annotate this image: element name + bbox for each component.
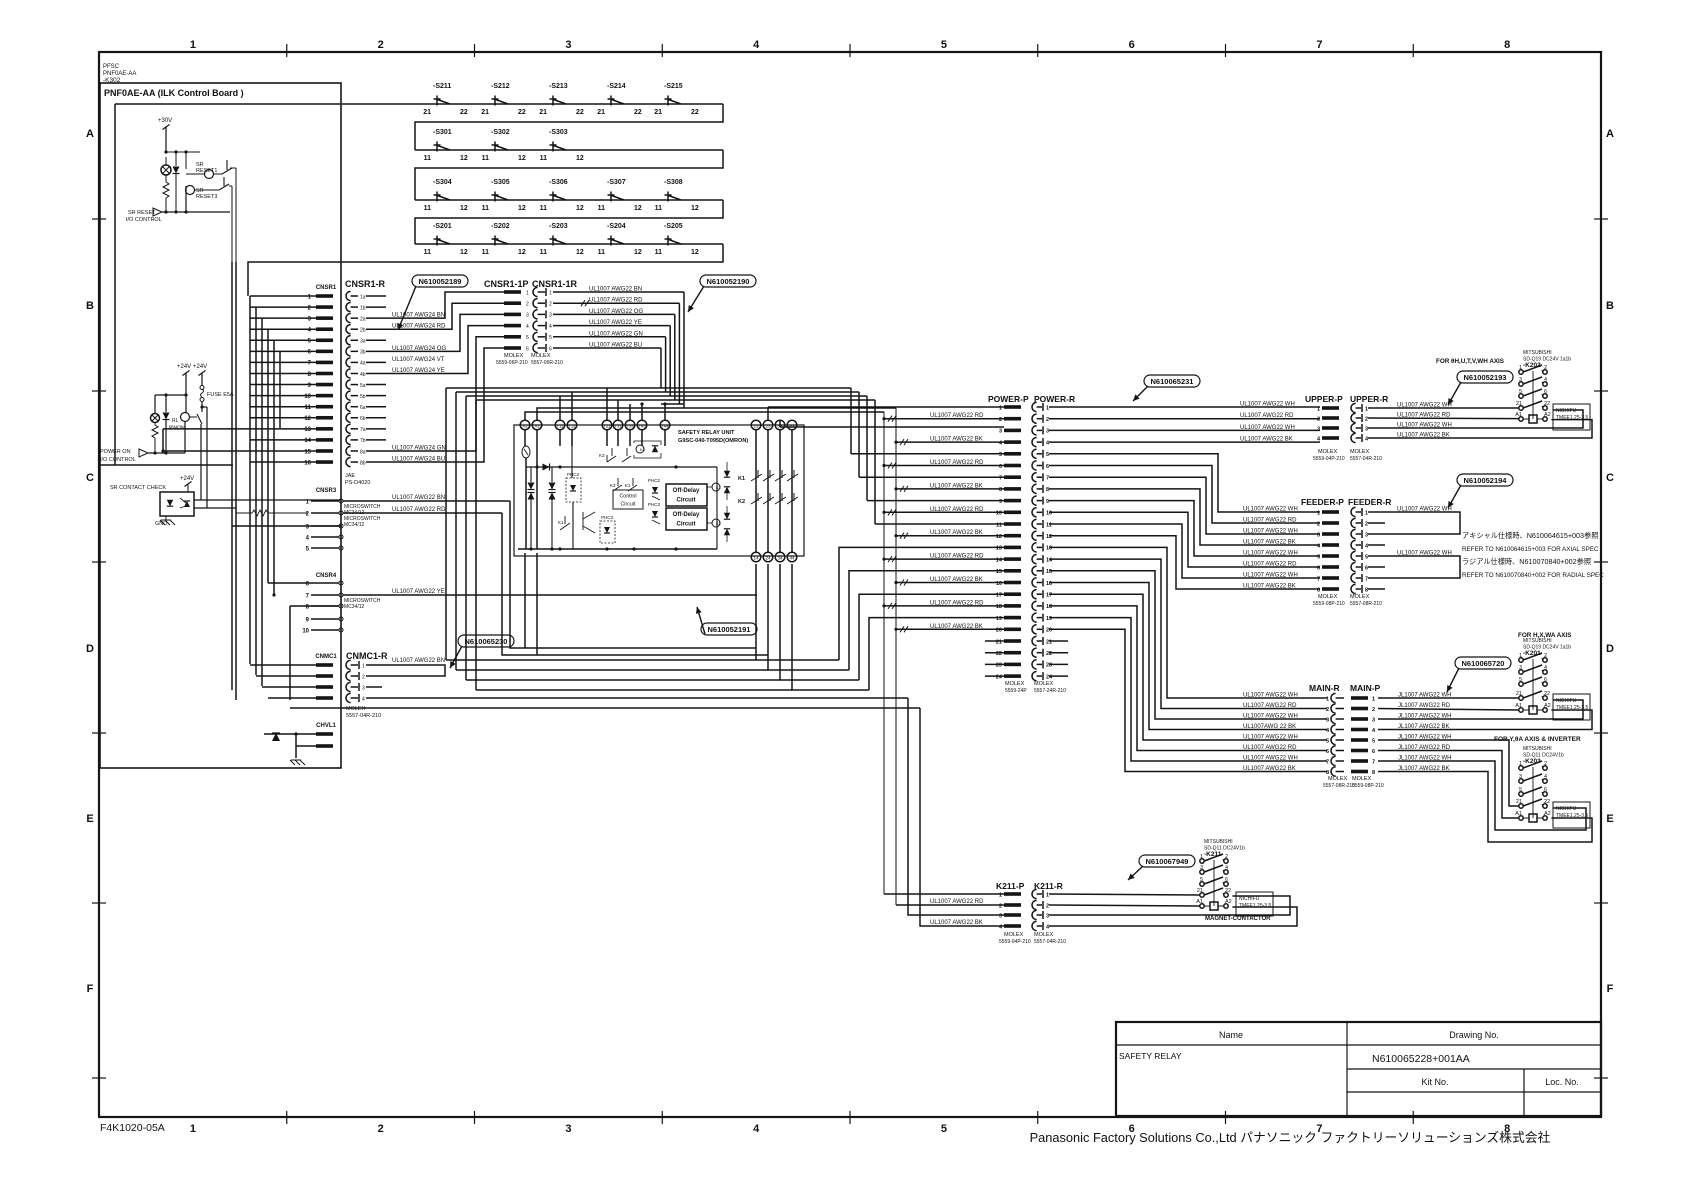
- svg-text:JAE: JAE: [345, 473, 355, 479]
- svg-text:5559-24P: 5559-24P: [1005, 688, 1027, 694]
- unit pin T44: [660, 420, 670, 430]
- bus wire: [895, 408, 897, 905]
- svg-text:REFER TO N610070840+002 FOR RA: REFER TO N610070840+002 FOR RADIAL SPEC: [1462, 572, 1604, 579]
- svg-text:5: 5: [549, 335, 552, 341]
- zener pair: [528, 483, 535, 490]
- svg-text:MOLEX: MOLEX: [1350, 594, 1370, 600]
- svg-text:UPPER-R: UPPER-R: [1350, 394, 1388, 404]
- POWER-R pin 20: [1032, 625, 1037, 634]
- svg-text:5557-06R-210: 5557-06R-210: [531, 360, 563, 366]
- chain end wire: [248, 244, 723, 296]
- svg-text:C: C: [86, 472, 94, 484]
- svg-text:-S201: -S201: [433, 223, 452, 230]
- svg-text:-S202: -S202: [491, 223, 510, 230]
- svg-text:FOR θH,U,T,V,WH AXIS: FOR θH,U,T,V,WH AXIS: [1436, 358, 1504, 365]
- svg-text:CNSR3: CNSR3: [316, 488, 337, 494]
- svg-text:13: 13: [753, 423, 759, 428]
- svg-text:POWER-P: POWER-P: [988, 394, 1029, 404]
- svg-text:POWER-R: POWER-R: [1034, 394, 1075, 404]
- triangle in: [153, 208, 162, 216]
- svg-text:TMEE1.25-3.5: TMEE1.25-3.5: [1239, 903, 1271, 909]
- svg-text:2: 2: [1046, 903, 1049, 909]
- svg-text:N610065720: N610065720: [1462, 659, 1505, 668]
- ground: [290, 760, 305, 765]
- wire bottom: [148, 452, 185, 454]
- svg-text:9: 9: [1046, 499, 1049, 505]
- svg-text:2: 2: [362, 674, 365, 680]
- unit lead: [641, 430, 643, 446]
- svg-text:2: 2: [1326, 707, 1329, 713]
- PHC3 box left: [600, 521, 615, 543]
- svg-text:12: 12: [576, 249, 584, 256]
- svg-text:-K202: -K202: [1523, 362, 1541, 369]
- wire vertical: [678, 303, 680, 404]
- unit pin T22: [602, 420, 612, 430]
- contact blade: [787, 470, 798, 481]
- wire bundle left verticals: [445, 388, 447, 660]
- svg-text:6: 6: [1372, 749, 1375, 755]
- unit pin T33: [625, 420, 635, 430]
- zone tick right: [1594, 732, 1608, 734]
- svg-text:UL1007 AWG22 GN: UL1007 AWG22 GN: [589, 331, 643, 337]
- svg-text:GND: GND: [155, 521, 167, 527]
- CNSR1-R pin 6a: [346, 402, 351, 411]
- CNMC1-R pin 2: [346, 671, 351, 680]
- svg-text:6: 6: [1129, 39, 1135, 51]
- CNSR1-R pin 6b: [346, 413, 351, 422]
- svg-text:1: 1: [1519, 761, 1522, 767]
- svg-text:UL1007 AWG22 BK: UL1007 AWG22 BK: [1243, 766, 1296, 772]
- svg-text:SAFETY RELAY UNIT: SAFETY RELAY UNIT: [678, 430, 735, 436]
- wire down: [200, 424, 202, 500]
- zone tick top: [474, 44, 476, 57]
- svg-text:UL1007 AWG22 BK: UL1007 AWG22 BK: [930, 530, 983, 536]
- svg-text:2: 2: [526, 302, 529, 308]
- control circuit box: [613, 490, 643, 509]
- svg-text:MOLEX: MOLEX: [504, 353, 524, 359]
- wire UL1007 AWG22 RD: [1368, 417, 1519, 420]
- stub: [1368, 522, 1385, 524]
- svg-text:2: 2: [1046, 417, 1049, 423]
- contact blade: [751, 493, 762, 504]
- wire: [230, 167, 236, 169]
- svg-text:11: 11: [1046, 522, 1052, 528]
- svg-text:21: 21: [539, 109, 547, 116]
- svg-text:10: 10: [302, 628, 309, 634]
- FEEDER-P pin 1: [1322, 510, 1339, 514]
- svg-text:UL1007 AWG22 WH: UL1007 AWG22 WH: [1240, 425, 1295, 431]
- contact K2/K1: [613, 478, 637, 491]
- FEEDER-P pin 5: [1322, 554, 1339, 558]
- MAIN-P pin 6: [1351, 749, 1368, 753]
- svg-text:RESET3: RESET3: [196, 194, 217, 200]
- svg-text:MOLEX: MOLEX: [1328, 776, 1348, 782]
- wire UL1007 AWG22 BU: [553, 347, 661, 349]
- wire: [268, 582, 311, 584]
- svg-text:UL1007 AWG22 BU: UL1007 AWG22 BU: [589, 343, 642, 349]
- wire A1 lead: [537, 408, 896, 420]
- K211-R pin 2: [1032, 900, 1037, 909]
- wire stub: [366, 372, 386, 374]
- svg-text:6: 6: [1365, 565, 1368, 571]
- CNSR1-R pin 4b: [346, 369, 351, 378]
- MAIN-P pin 3: [1351, 717, 1368, 721]
- svg-text:RL: RL: [172, 418, 179, 424]
- switch chain row 1 wire: [342, 103, 723, 105]
- wire to CNSR1-1P: [386, 326, 504, 374]
- svg-text:16: 16: [304, 460, 311, 466]
- zone tick top: [661, 44, 663, 57]
- svg-text:Control: Control: [619, 494, 636, 500]
- svg-text:-S213: -S213: [549, 83, 568, 90]
- svg-text:F4K1020-05A: F4K1020-05A: [100, 1122, 165, 1134]
- switch -S307: [608, 192, 625, 202]
- wire to CNSR1-1P: [386, 303, 504, 329]
- pushbutton SR RESET1: [205, 170, 214, 179]
- svg-text:5557-08R-210: 5557-08R-210: [1323, 783, 1355, 789]
- POWER-R pin 9: [1032, 496, 1037, 505]
- unit lead: [524, 430, 526, 446]
- svg-text:11: 11: [598, 249, 606, 256]
- svg-text:10: 10: [1046, 511, 1052, 517]
- svg-text:23: 23: [1046, 663, 1052, 669]
- svg-text:22: 22: [460, 109, 468, 116]
- svg-text:N610065230: N610065230: [465, 637, 508, 646]
- wire to MAIN-R: [1049, 559, 1327, 708]
- svg-text:1: 1: [1372, 696, 1375, 702]
- title right row line2: [1347, 1091, 1601, 1093]
- wire: [155, 394, 186, 396]
- svg-text:-S302: -S302: [491, 129, 510, 136]
- svg-text:17: 17: [996, 593, 1002, 599]
- contact K1: [560, 516, 570, 530]
- wire 14 lead: [756, 564, 839, 660]
- svg-text:11: 11: [482, 155, 490, 162]
- svg-text:13: 13: [1046, 546, 1052, 552]
- svg-text:7: 7: [999, 476, 1002, 482]
- wire UL1007 AWG22 WH: [1049, 429, 1320, 431]
- svg-text:21: 21: [996, 639, 1002, 645]
- CNSR1-1P pin 4: [504, 324, 521, 328]
- svg-text:K2: K2: [610, 483, 616, 488]
- wire stub: [366, 406, 386, 408]
- svg-text:CNSR4: CNSR4: [316, 573, 337, 579]
- svg-text:22: 22: [1544, 799, 1550, 805]
- off-delay circuit 2: [666, 508, 707, 530]
- svg-text:20: 20: [1046, 628, 1052, 634]
- CNSR1-R pin 2b: [346, 325, 351, 334]
- zone tick bottom: [1412, 1111, 1414, 1124]
- switch -S215: [665, 96, 682, 106]
- svg-text:3: 3: [1326, 717, 1329, 723]
- zone tick bottom: [286, 1111, 288, 1124]
- svg-text:UL1007 AWG22 BK: UL1007 AWG22 BK: [930, 437, 983, 443]
- svg-text:5557-08R-210: 5557-08R-210: [1350, 601, 1382, 607]
- wire 34 lead: [780, 564, 859, 680]
- diode: [272, 733, 280, 741]
- svg-text:UL1007 AWG22 WH: UL1007 AWG22 WH: [1243, 693, 1298, 699]
- CNSR1-R pin 8a: [346, 446, 351, 455]
- svg-text:5: 5: [1365, 554, 1368, 560]
- svg-text:4: 4: [362, 696, 365, 702]
- svg-text:1: 1: [1046, 892, 1049, 898]
- svg-text:5: 5: [1046, 452, 1049, 458]
- CNSR1-1P pin 6: [504, 346, 521, 350]
- wire 24 lead: [768, 564, 849, 670]
- title right row line: [1347, 1068, 1601, 1070]
- wire vertical: [665, 337, 667, 392]
- zone tick left: [92, 390, 106, 392]
- svg-text:F: F: [1607, 983, 1614, 995]
- zener pair: [549, 483, 556, 490]
- chain return wire: [415, 200, 723, 244]
- svg-text:FEEDER-R: FEEDER-R: [1348, 497, 1391, 507]
- svg-text:NICHIFU: NICHIFU: [1239, 896, 1260, 902]
- wire UL1007 AWG22 RD: [884, 558, 1004, 560]
- svg-text:K3: K3: [599, 453, 605, 458]
- svg-text:UL1007 AWG22 BN: UL1007 AWG22 BN: [589, 287, 642, 293]
- wire to MAIN-R: [1049, 618, 1327, 761]
- svg-text:12: 12: [634, 205, 642, 212]
- switch -S202: [492, 236, 509, 246]
- switch -S304: [434, 192, 451, 202]
- wire pin13 left: [163, 428, 250, 430]
- wire K201 21: [1378, 697, 1519, 699]
- svg-text:UL1007 AWG24 VT: UL1007 AWG24 VT: [392, 357, 445, 363]
- LED PWON: [151, 414, 160, 423]
- svg-text:A2: A2: [1544, 412, 1551, 418]
- svg-text:K211-P: K211-P: [996, 881, 1025, 891]
- svg-text:UL1007 AWG22 RD: UL1007 AWG22 RD: [1243, 518, 1297, 524]
- svg-text:5559-06P-210: 5559-06P-210: [496, 360, 528, 366]
- diode: [163, 413, 170, 420]
- svg-text:1: 1: [362, 663, 365, 669]
- svg-text:3: 3: [565, 1123, 571, 1135]
- balloon N610052189: [412, 275, 468, 287]
- unit lead: [629, 430, 631, 446]
- svg-text:UL1007 AWG22 OG: UL1007 AWG22 OG: [589, 309, 643, 315]
- svg-text:UL1007 AWG22 RD: UL1007 AWG22 RD: [930, 600, 984, 606]
- UPPER-P pin 4: [1322, 436, 1339, 440]
- contact blade: [190, 414, 203, 424]
- unit internal bus: [526, 466, 717, 468]
- wire K211 21: [1049, 894, 1200, 895]
- svg-text:4: 4: [549, 324, 552, 330]
- svg-text:12: 12: [460, 205, 468, 212]
- svg-text:11: 11: [996, 522, 1002, 528]
- unit pin 14: [751, 552, 761, 562]
- svg-text:UL1007 AWG22 WH: UL1007 AWG22 WH: [1243, 756, 1298, 762]
- svg-text:PS-D4020: PS-D4020: [345, 480, 370, 486]
- svg-text:UL1007 AWG22 BK: UL1007 AWG22 BK: [1243, 540, 1296, 546]
- wire T22 lead: [606, 388, 608, 420]
- switch -S201: [434, 236, 451, 246]
- svg-text:16: 16: [996, 581, 1002, 587]
- CNSR1-1R pin 2: [533, 299, 538, 308]
- svg-text:D: D: [86, 643, 94, 655]
- svg-text:1: 1: [1046, 405, 1049, 411]
- svg-text:9: 9: [999, 499, 1002, 505]
- svg-text:-S212: -S212: [491, 83, 510, 90]
- svg-text:21: 21: [1197, 888, 1203, 894]
- svg-text:-S303: -S303: [549, 129, 568, 136]
- svg-text:MC34/12: MC34/12: [344, 522, 365, 528]
- svg-text:FEEDER-P: FEEDER-P: [1301, 497, 1344, 507]
- stub wires: [985, 640, 1004, 642]
- svg-text:7b: 7b: [360, 438, 366, 444]
- contact blade: [751, 470, 762, 481]
- CHVL1 pin 2: [316, 744, 333, 748]
- svg-text:A2: A2: [1225, 899, 1232, 905]
- switch chain row 3 wire: [415, 199, 723, 201]
- svg-text:N610065231: N610065231: [1151, 377, 1194, 386]
- NICHIFU terminal box: [1236, 892, 1273, 916]
- svg-text:Kit No.: Kit No.: [1421, 1077, 1448, 1087]
- svg-text:F: F: [87, 983, 94, 995]
- svg-text:2b: 2b: [360, 328, 366, 334]
- svg-text:T22: T22: [603, 423, 611, 428]
- safety relay unit U1 box: [514, 425, 804, 556]
- svg-text:1: 1: [526, 290, 529, 296]
- bus wire: [883, 412, 885, 894]
- svg-text:A1: A1: [1515, 811, 1522, 817]
- CNSR1-R pin 3b: [346, 347, 351, 356]
- wire K203 A1: [1378, 751, 1519, 819]
- switch -S214: [608, 96, 625, 106]
- svg-text:-S307: -S307: [607, 179, 626, 186]
- stub wires: [985, 675, 1004, 677]
- svg-text:Panasonic Factory Solutions Co: Panasonic Factory Solutions Co.,Ltd パナソニ…: [1030, 1130, 1551, 1145]
- svg-text:UL1007 AWG22 RD: UL1007 AWG22 RD: [1397, 413, 1451, 419]
- svg-text:+24V: +24V: [180, 476, 194, 482]
- wire to MAIN-R: [1049, 594, 1327, 740]
- wire UL1007 AWG22 RD: [884, 465, 1004, 467]
- svg-text:21: 21: [597, 109, 605, 116]
- svg-text:24: 24: [765, 555, 771, 560]
- zone tick top: [849, 44, 851, 57]
- svg-text:4b: 4b: [360, 372, 366, 378]
- wire to FEEDER-P: [1049, 524, 1320, 578]
- wire K211 A1: [1049, 905, 1200, 906]
- wire: [229, 185, 232, 187]
- wire loop rows5-7: [1368, 556, 1460, 578]
- UPPER-P pin 2: [1322, 416, 1339, 420]
- CNSR1-1P pin 1: [504, 290, 521, 294]
- svg-text:3: 3: [999, 429, 1002, 435]
- svg-text:3b: 3b: [360, 350, 366, 356]
- svg-text:1: 1: [549, 290, 552, 296]
- wire CNSR3 drop2: [502, 513, 628, 655]
- wire stub: [366, 395, 386, 397]
- inner box line top: [115, 103, 341, 105]
- wires to POWER odd rows: [851, 453, 1004, 455]
- svg-text:8: 8: [1046, 487, 1049, 493]
- svg-text:12: 12: [460, 249, 468, 256]
- svg-text:8: 8: [1372, 770, 1375, 776]
- svg-text:UL1007 AWG22 RD: UL1007 AWG22 RD: [1243, 745, 1297, 751]
- zone tick bottom: [1037, 1111, 1039, 1124]
- triangle in: [139, 449, 148, 457]
- svg-text:2: 2: [1372, 707, 1375, 713]
- svg-text:5559-04P-210: 5559-04P-210: [999, 939, 1031, 945]
- diode pair: [724, 471, 730, 477]
- svg-text:5557-04R-210: 5557-04R-210: [1034, 939, 1066, 945]
- unit pin 13: [751, 420, 761, 430]
- svg-text:3: 3: [1365, 532, 1368, 538]
- svg-text:11: 11: [424, 155, 432, 162]
- svg-text:MOLEX: MOLEX: [1318, 449, 1338, 455]
- UPPER-P pin 3: [1322, 426, 1339, 430]
- svg-text:MITSUBISHI: MITSUBISHI: [1523, 746, 1552, 752]
- K211-R pin 4: [1032, 921, 1037, 930]
- svg-text:8: 8: [999, 487, 1002, 493]
- svg-text:MOLEX: MOLEX: [1034, 681, 1054, 687]
- wire stub: [366, 439, 386, 441]
- svg-text:14: 14: [753, 555, 759, 560]
- wire K211 22: [1049, 896, 1290, 915]
- wire stub: [366, 686, 382, 688]
- FEEDER-R pin 6: [1351, 562, 1356, 571]
- svg-text:23: 23: [996, 663, 1002, 669]
- title divider kit/loc: [1523, 1069, 1525, 1116]
- svg-text:UL1007 AWG22 WH: UL1007 AWG22 WH: [1397, 507, 1452, 513]
- svg-text:A: A: [86, 128, 94, 140]
- svg-text:2: 2: [999, 417, 1002, 423]
- svg-text:8a: 8a: [360, 449, 366, 455]
- zone tick right: [1594, 218, 1608, 220]
- svg-text:22: 22: [1046, 651, 1052, 657]
- svg-text:22: 22: [518, 109, 526, 116]
- wire stub: [366, 317, 386, 319]
- FEEDER-R pin 3: [1351, 529, 1356, 538]
- CNSR1-R pin 5a: [346, 380, 351, 389]
- wire bundle horizontals: [446, 387, 851, 389]
- balloon N610065230: [458, 635, 514, 647]
- K211-R pin 3: [1032, 910, 1037, 919]
- svg-text:-S306: -S306: [549, 179, 568, 186]
- PHC2 box left: [566, 478, 581, 502]
- contact: [195, 177, 229, 190]
- svg-text:19: 19: [1046, 616, 1052, 622]
- svg-text:12: 12: [518, 205, 526, 212]
- title divider vertical: [1346, 1022, 1348, 1116]
- svg-text:CNSR1: CNSR1: [316, 285, 337, 291]
- svg-text:T12: T12: [568, 423, 576, 428]
- svg-text:-S304: -S304: [433, 179, 452, 186]
- off-delay circuit 1: [666, 484, 707, 506]
- unit pin T43: [637, 420, 647, 430]
- svg-text:3: 3: [1317, 426, 1320, 432]
- svg-text:MC34/12: MC34/12: [344, 604, 365, 610]
- svg-text:UL1007 AWG22 WH: UL1007 AWG22 WH: [1243, 507, 1298, 513]
- svg-text:+30V: +30V: [158, 118, 172, 124]
- svg-text:5: 5: [1372, 738, 1375, 744]
- optocoupler box: [160, 492, 194, 516]
- varistor: [522, 446, 530, 458]
- opto led: [167, 500, 173, 506]
- wire UL1007 AWG22 RD: [1049, 418, 1320, 420]
- svg-text:12: 12: [1046, 534, 1052, 540]
- switch -S302: [492, 142, 509, 152]
- svg-text:12: 12: [576, 205, 584, 212]
- wire UL1007 AWG22 BK: [896, 535, 1004, 537]
- stair verticals: [850, 388, 852, 454]
- POWER-R pin 19: [1032, 613, 1037, 622]
- svg-text:14: 14: [996, 557, 1003, 563]
- svg-text:PHC2: PHC2: [567, 472, 580, 477]
- svg-text:7: 7: [1365, 576, 1368, 582]
- MAIN-R pin 3: [1331, 714, 1336, 723]
